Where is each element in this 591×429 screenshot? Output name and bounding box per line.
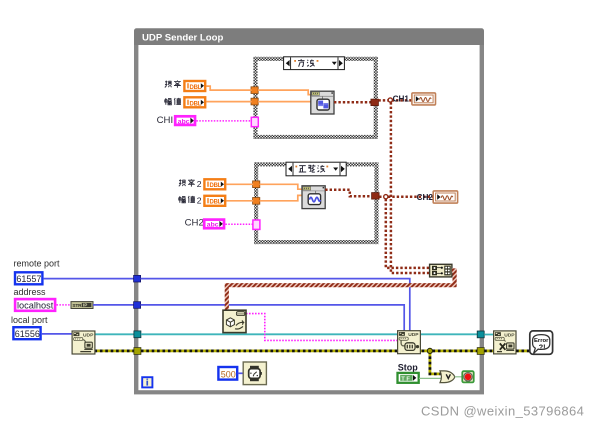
junction ring CH2 — [384, 195, 388, 199]
wire olive branch to Or gate — [430, 351, 441, 374]
case 1 interior wires orange — [258, 90, 311, 95]
wire remote port inside loop — [141, 279, 410, 331]
string to IP function STR IP — [71, 302, 93, 309]
svg-text:?!: ?! — [539, 342, 546, 351]
while loop bottom border — [134, 390, 484, 394]
indicator CH1 waveform — [412, 93, 436, 105]
wire Stop to Or — [419, 377, 441, 379]
label 幅值 — [165, 98, 181, 105]
svg-text:local port: local port — [11, 315, 48, 325]
tunnel blue address — [134, 302, 141, 309]
while loop left border — [134, 45, 138, 394]
svg-text:UDP: UDP — [504, 332, 515, 338]
junction olive — [427, 348, 432, 353]
wire flatten string out (magenta) — [246, 314, 398, 341]
DBL control 幅值 — [184, 97, 205, 107]
svg-text:Stop: Stop — [398, 362, 418, 372]
svg-text:IP: IP — [83, 303, 87, 308]
svg-text:CH2: CH2 — [185, 218, 204, 229]
wire bundle output hatched cluster — [227, 271, 455, 311]
svg-text:61556: 61556 — [15, 329, 40, 339]
case 2 interior wires orange — [260, 184, 302, 189]
case 2 selector label — [286, 162, 346, 176]
DBL control 频率 2 — [204, 179, 225, 189]
tunnel teal right — [477, 331, 484, 338]
UDP Close icon — [494, 331, 516, 354]
svg-text:DBL: DBL — [190, 85, 202, 91]
svg-text:2: 2 — [197, 179, 202, 189]
svg-text:DBL: DBL — [210, 183, 222, 189]
wire CH1 outside — [378, 99, 412, 102]
svg-text:61557: 61557 — [16, 274, 41, 284]
svg-text:UDP: UDP — [408, 332, 419, 338]
label 频率 2 — [179, 179, 202, 189]
wire 61557 to tunnel — [44, 278, 134, 280]
wire Or to loop condition — [455, 376, 462, 378]
wire 幅值 to case tunnel — [207, 101, 252, 103]
case structure 1 border — [253, 57, 377, 139]
loop condition terminal (stop sign) — [462, 371, 473, 382]
numeric constant 61557 — [15, 272, 42, 284]
case 2 tunnels — [253, 181, 260, 188]
wire UDP Open error out (olive dashed) — [95, 349, 138, 352]
string control CH1 — [175, 116, 195, 125]
wire 幅值 2 to tunnel — [227, 200, 254, 202]
DBL control 频率 — [184, 81, 205, 91]
svg-text:localhost: localhost — [17, 301, 54, 311]
wire teal conn inside loop — [141, 333, 480, 335]
junction ring CH1 — [388, 98, 392, 102]
svg-text:CH1: CH1 — [393, 94, 410, 103]
Or gate — [440, 371, 455, 383]
string control CH2 — [204, 220, 224, 229]
svg-text:DBL: DBL — [210, 200, 222, 206]
wire 频率 2 to tunnel — [227, 183, 254, 185]
svg-text:2: 2 — [197, 196, 202, 206]
wire olive to error dialog — [516, 349, 530, 352]
case 1 output tunnel — [371, 99, 379, 106]
UDP Write icon — [398, 331, 421, 354]
case 1 selector label — [284, 57, 345, 70]
iteration terminal i — [142, 377, 152, 387]
while loop right border — [480, 45, 484, 394]
svg-text:address: address — [14, 287, 47, 297]
wire teal to UDP Close — [484, 334, 493, 336]
case 2 VI icon (sine wave generator) — [302, 186, 325, 209]
case 1 VI icon (square wave generator) — [311, 91, 334, 114]
wire olive to UDP Close — [484, 349, 493, 352]
case 2 output wire dashed — [325, 190, 373, 197]
boolean control Stop TF — [398, 373, 419, 383]
bundle icon — [430, 264, 452, 277]
svg-text:DBL: DBL — [190, 101, 202, 107]
wire CH2 vertical to bundle — [386, 199, 430, 268]
wire 61556 to UDP Open — [42, 333, 72, 335]
label 频率 — [165, 80, 181, 87]
wire CH2 to case tunnel (pink dashed) — [225, 223, 253, 225]
while loop title bar — [134, 28, 484, 45]
svg-text:UDP Sender Loop: UDP Sender Loop — [142, 33, 224, 44]
svg-text:abc: abc — [178, 118, 190, 125]
numeric constant 500 — [218, 367, 237, 380]
wire olive error inside loop — [141, 349, 480, 352]
UDP Open icon — [72, 331, 95, 354]
tunnel teal conn — [134, 331, 141, 338]
indicator CH2 waveform — [433, 191, 457, 203]
wire STR IP to tunnel — [93, 304, 134, 306]
case 1 output wire dashed — [334, 101, 372, 104]
wire 500 to wait — [238, 372, 244, 374]
case 1 tunnels — [251, 87, 258, 94]
svg-text:CHI: CHI — [157, 115, 174, 126]
svg-text:T F: T F — [401, 376, 410, 382]
svg-text:UDP: UDP — [83, 332, 94, 338]
wait ms icon — [243, 362, 266, 385]
wire CH1 vertical to bundle — [391, 102, 430, 273]
wire UDP Open conn out (teal) — [95, 333, 138, 335]
svg-text:CH2: CH2 — [417, 193, 434, 202]
wire CH1 to case tunnel (pink dashed) — [196, 120, 251, 122]
svg-text:remote port: remote port — [14, 259, 61, 269]
wire localhost to STR IP (pink dashed) — [57, 304, 72, 306]
case 2 output tunnel — [372, 193, 380, 200]
svg-text:500: 500 — [221, 369, 236, 379]
wire address inside loop — [141, 305, 405, 331]
svg-text:STR: STR — [72, 303, 82, 309]
svg-text:CSDN @weixin_53796864: CSDN @weixin_53796864 — [421, 404, 584, 419]
tunnel olive right — [477, 348, 484, 355]
tunnel olive error — [134, 348, 141, 355]
while loop UDP Sender Loop — [134, 28, 484, 394]
wire 频率 to case tunnel — [207, 86, 252, 90]
case structure 2 border — [254, 162, 378, 244]
wire CH2 outside — [379, 195, 433, 198]
error dialog icon — [530, 331, 553, 354]
string constant localhost — [15, 299, 55, 311]
flatten to string icon — [223, 310, 246, 332]
numeric constant 61556 — [13, 327, 40, 339]
DBL control 幅值 2 — [204, 196, 225, 206]
label 幅值 2 — [179, 196, 202, 206]
svg-text:abc: abc — [207, 222, 219, 229]
tunnel blue remote port — [134, 275, 141, 282]
